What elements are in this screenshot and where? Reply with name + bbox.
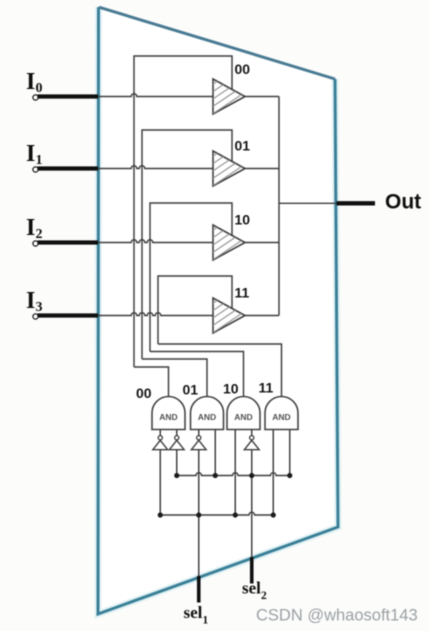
tri-state buffer 01 — [211, 131, 251, 188]
svg-text:2: 2 — [261, 590, 267, 602]
junction sel2-invB — [174, 473, 179, 478]
svg-text:CSDN @whaosoft143: CSDN @whaosoft143 — [256, 607, 418, 625]
svg-text:11: 11 — [235, 285, 250, 301]
tri-state buffer 11 — [211, 278, 251, 335]
svg-text:2: 2 — [36, 227, 43, 242]
AND gate 11 — [265, 397, 298, 430]
buffer 00 output wire — [245, 96, 279, 98]
svg-text:AND: AND — [198, 412, 216, 422]
AND gate 10 — [227, 397, 260, 430]
svg-text:I: I — [26, 215, 35, 241]
inverter A (sel1 bar, gate 00 left) — [153, 430, 168, 450]
wire AND 00 output to enable — [134, 367, 169, 399]
wire inverter B input to sel2 bus — [176, 450, 178, 476]
Out thick lead — [337, 201, 376, 205]
tri-state buffer 00 — [211, 59, 251, 116]
input I2 terminal circle — [33, 241, 38, 246]
wire AND 10 output to enable — [150, 352, 244, 399]
wire I2 thick lead — [38, 240, 99, 244]
wire to Out — [279, 202, 337, 204]
svg-text:AND: AND — [272, 412, 290, 422]
enable loop wire for buffer 01 — [142, 130, 232, 359]
svg-text:AND: AND — [234, 412, 252, 422]
inverter D (sel2 bar, gate 10 right) — [244, 430, 259, 450]
input I1 terminal circle — [33, 167, 38, 172]
svg-text:10: 10 — [235, 212, 251, 228]
wire I3 to buffer input — [98, 313, 213, 316]
svg-text:0: 0 — [36, 81, 43, 96]
wire sel2 line — [251, 450, 253, 559]
junction sel1-gate11 — [271, 512, 276, 517]
wire gate 01 right input (sel2) — [214, 430, 216, 476]
inverter C (sel1 bar, gate 01 left) — [191, 430, 206, 450]
enable loop wire for buffer 11 — [158, 276, 232, 344]
wire I0 to buffer input — [98, 94, 213, 97]
inverter B (sel2 bar, gate 00 right) — [169, 430, 184, 450]
buffer 01 output wire — [245, 168, 279, 170]
junction sel1 feed — [196, 512, 201, 517]
svg-text:sel: sel — [242, 579, 261, 598]
svg-text:I: I — [26, 141, 35, 167]
svg-text:3: 3 — [36, 300, 43, 315]
svg-text:00: 00 — [136, 385, 152, 401]
svg-text:Out: Out — [385, 191, 421, 214]
svg-text:01: 01 — [235, 138, 251, 154]
junction sel2 feed — [249, 473, 254, 478]
junction sel2-gate01 — [213, 473, 218, 478]
sel2 bus (upper horizontal) — [177, 473, 290, 476]
wire I2 to buffer input — [98, 240, 213, 243]
mux body trapezoid — [98, 7, 338, 614]
enable loop wire for buffer 00 — [134, 56, 232, 367]
wire AND 01 output to enable — [142, 359, 207, 399]
sel1 bus (lower horizontal) — [160, 512, 273, 515]
AND gate 01 — [191, 397, 224, 430]
svg-text:10: 10 — [223, 381, 239, 397]
svg-text:1: 1 — [203, 615, 209, 627]
tri-state buffer 10 — [211, 205, 251, 262]
svg-text:1: 1 — [36, 153, 43, 168]
wire gate 11 left input (sel1) — [272, 430, 274, 516]
svg-text:I: I — [26, 288, 35, 314]
junction sel1-invA — [158, 512, 163, 517]
junction sel1-gate10 — [233, 512, 238, 517]
buffer 11 output wire — [245, 315, 279, 317]
svg-text:00: 00 — [235, 61, 251, 77]
wire inverter A input to sel1 bus — [159, 450, 161, 515]
input I0 terminal circle — [33, 95, 38, 100]
wire I0 thick lead — [38, 94, 99, 98]
svg-text:01: 01 — [183, 382, 199, 398]
wire sel1 line — [198, 450, 200, 578]
wire I1 thick lead — [38, 166, 99, 170]
svg-text:AND: AND — [159, 412, 177, 422]
AND gate 00 — [152, 397, 185, 430]
wire I1 to buffer input — [98, 166, 213, 169]
svg-text:sel: sel — [184, 603, 203, 622]
buffer 10 output wire — [245, 242, 279, 244]
input I3 terminal circle — [33, 314, 38, 319]
svg-text:I: I — [26, 69, 35, 95]
enable loop wire for buffer 10 — [150, 203, 232, 352]
wire gate 11 right input (sel2) — [289, 430, 291, 476]
wire AND 11 output to enable — [158, 344, 282, 399]
output bus — [278, 97, 280, 316]
wire gate 10 left input (sel1) — [234, 430, 236, 516]
svg-text:11: 11 — [259, 380, 274, 396]
wire I3 thick lead — [38, 313, 99, 317]
junction sel2-gate11 — [287, 473, 292, 478]
